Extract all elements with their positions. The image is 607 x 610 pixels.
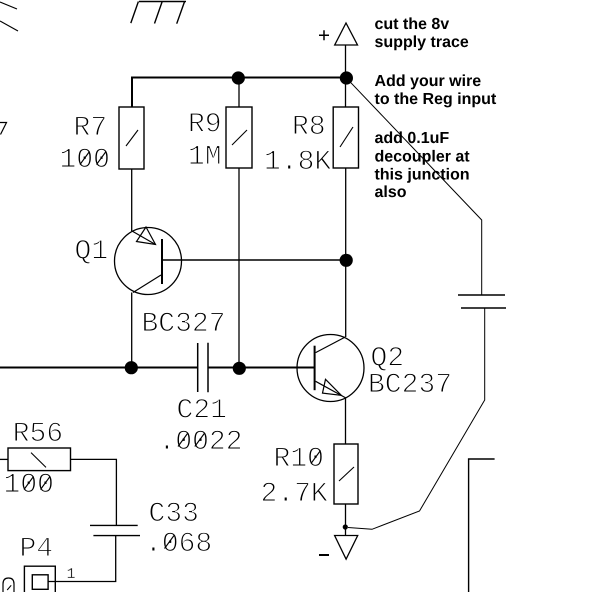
transistor Q2	[297, 335, 364, 402]
label C33	[150, 502, 197, 521]
annotation: add 0.1uF	[375, 131, 449, 143]
value .0022	[165, 430, 240, 449]
value 100 (R7)	[62, 148, 109, 167]
transistor Q1	[115, 227, 182, 295]
label BC237	[370, 373, 450, 392]
wire: R7 to Q1 emitter	[131, 169, 133, 231]
label R7	[76, 117, 105, 135]
value 1M	[190, 146, 220, 164]
label P4	[22, 538, 52, 556]
wire: C21 to Q2 base	[208, 367, 315, 369]
partial label 7 at left edge	[0, 123, 7, 135]
value .068 zero slash	[165, 536, 175, 549]
wire: R9 down to Q2 base junction	[238, 168, 240, 368]
wire: supply rail horizontal	[132, 77, 347, 79]
wire: R10 to -8V symbol	[345, 504, 347, 536]
partial regulator outline at right	[469, 459, 495, 592]
partial hatched symbol at top	[131, 2, 186, 24]
partial label 0 at bottom left	[3, 578, 14, 592]
wire: Q1 base to junction	[162, 259, 346, 261]
value .068	[152, 532, 211, 551]
capacitor C21	[198, 343, 208, 393]
-8V supply symbol	[319, 536, 358, 560]
decoupling capacitor (added 0.1uF)	[458, 295, 506, 308]
label C21	[178, 399, 226, 418]
connector P4	[24, 566, 55, 592]
label R10	[276, 447, 323, 466]
wire: junction down to Q2 collector	[345, 260, 347, 337]
wire: Q2 emitter to R10	[345, 398, 347, 444]
wire: C33 to P4 pin 1	[49, 536, 116, 582]
annotation: to the Reg input	[375, 92, 496, 107]
value 100 (R56) zero slashes	[24, 477, 50, 490]
annotation: Add your wire	[375, 74, 481, 89]
resistor R56	[8, 448, 71, 471]
wire: R8 down to junction	[345, 168, 347, 260]
annotation: this junction	[375, 168, 469, 183]
value 100 (R7) zero slashes	[80, 152, 106, 165]
value 100 (R56)	[6, 473, 53, 492]
annotation: supply trace	[375, 35, 468, 50]
resistor R8	[333, 107, 358, 168]
resistor R7	[119, 107, 144, 169]
value .0022 zero slashes	[178, 434, 204, 447]
wire: rail down to R9	[238, 78, 240, 107]
wire: R56 to C33	[71, 459, 117, 525]
label Q2	[372, 347, 402, 371]
value 2.7K	[263, 482, 328, 501]
value 1.8K	[266, 150, 331, 169]
partial symbol top-left corner	[0, 2, 18, 31]
label BC327	[144, 312, 224, 331]
junction: Q1 base / R8 / Q2 collector	[340, 254, 353, 267]
junction: ground node with added wire	[343, 524, 348, 529]
annotation: cut the 8v	[375, 17, 449, 29]
label Q1	[76, 240, 107, 264]
junction: rail / R9	[232, 71, 245, 84]
capacitor C33	[90, 525, 140, 535]
label R10 zero slash	[311, 451, 321, 464]
junction: Q1 collector / left net	[125, 361, 138, 374]
+8V supply symbol	[319, 23, 358, 45]
junction: rail / R8 / added wire	[340, 71, 353, 84]
resistor R9	[226, 107, 252, 168]
pin number 1	[68, 568, 75, 578]
junction: C21 / R9 / Q2 base	[233, 362, 246, 375]
wire: + symbol down through rail to R8	[345, 45, 347, 107]
wire: left edge to R56	[0, 458, 8, 460]
annotation: decoupler at	[375, 150, 469, 165]
annotation: also	[375, 185, 406, 197]
wire: Q1 collector down	[131, 293, 133, 369]
label R9	[190, 113, 220, 132]
label R56	[15, 422, 61, 441]
resistor R10	[334, 444, 358, 504]
label R8	[294, 115, 324, 134]
wire: left edge to C21	[0, 367, 198, 369]
added wire: junction to regulator input	[351, 82, 482, 295]
wire: rail corner down to R7	[131, 77, 133, 108]
added wire: capacitor to ground node	[348, 308, 485, 529]
